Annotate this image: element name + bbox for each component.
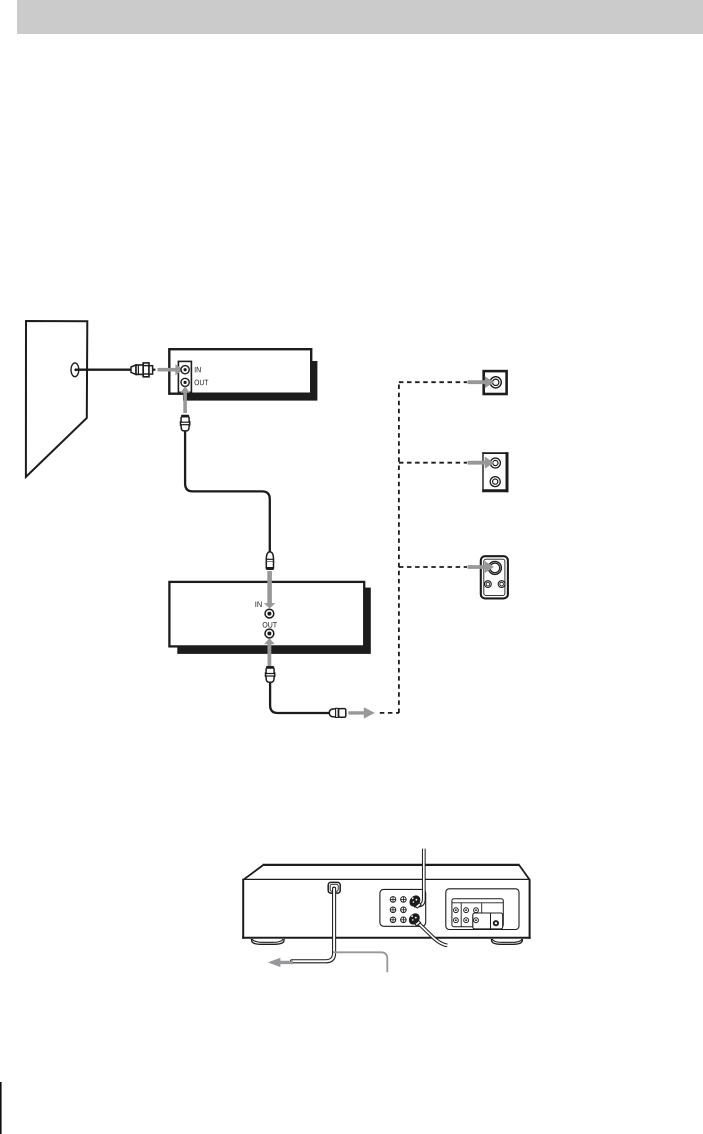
VCR IN jack bbox=[265, 609, 274, 618]
label OUT (converter) bbox=[195, 380, 209, 386]
wall (angled panel) bbox=[26, 321, 87, 477]
dashed branch to plate B bbox=[399, 462, 467, 464]
arrow out left from aerial cable bbox=[268, 958, 293, 967]
VCR rear: right slant bbox=[519, 865, 530, 880]
VCR right connector panel bbox=[446, 889, 519, 930]
RF cable lower out of VCR (double line) bbox=[416, 921, 448, 946]
VCR OUT jack bbox=[265, 629, 274, 638]
VCR box shadow bbox=[177, 588, 370, 654]
arrow up into converter OUT bbox=[180, 386, 189, 413]
RF cable down into VCR (double line) bbox=[414, 849, 424, 906]
arrow into IN of converter bbox=[158, 364, 184, 375]
dashed branch to plate A bbox=[399, 381, 467, 383]
converter box bbox=[169, 349, 311, 394]
page edge tab marker bbox=[0, 1082, 2, 1134]
converter box shadow bbox=[183, 361, 317, 401]
gray cable behind bbox=[333, 952, 387, 972]
wire converter OUT to VCR IN bbox=[185, 431, 270, 553]
dashed line bottom horizontal bbox=[380, 712, 399, 714]
wire VCR OUT to TV bbox=[270, 682, 329, 713]
wall plate B (two jacks) bbox=[482, 452, 508, 492]
arrow down into VCR IN bbox=[264, 571, 276, 608]
plug below converter (pointing up) bbox=[181, 415, 190, 431]
jacks on inner panel bbox=[454, 908, 479, 923]
VCR rear: top back edge bbox=[263, 864, 520, 866]
wall plate A (single coax) bbox=[484, 371, 507, 394]
arrow up into VCR OUT bbox=[264, 638, 275, 666]
antenna wall outlet bbox=[71, 363, 79, 377]
RF modulator tab bbox=[473, 913, 503, 929]
wire outlet to F-connector bbox=[76, 369, 132, 371]
RF plug lower bbox=[413, 919, 421, 926]
converter IN jack bbox=[181, 366, 189, 374]
wall plate C (coax + two jacks) bbox=[481, 556, 508, 598]
VCR box bbox=[169, 582, 364, 647]
screws on left panel bbox=[390, 897, 406, 923]
F-connector on aerial cable bbox=[131, 363, 155, 377]
VCR foot left bbox=[251, 939, 284, 944]
inner jack panel bbox=[452, 899, 503, 927]
VCR aerial jack bbox=[328, 882, 340, 893]
plug below VCR (pointing up) bbox=[266, 666, 275, 682]
header gray bar bbox=[17, 0, 703, 34]
arrow into plate C bbox=[468, 561, 494, 573]
dashed branch to plate C bbox=[399, 566, 467, 568]
label IN (converter) bbox=[195, 367, 201, 373]
VCR rear: left slant bbox=[243, 865, 263, 880]
plug to TV (pointing right) bbox=[329, 708, 346, 717]
arrow from plug to dashed line bbox=[348, 707, 374, 718]
dashed line vertical bbox=[398, 382, 400, 713]
VCR foot right bbox=[491, 939, 522, 944]
screw jack on tab bbox=[493, 920, 499, 926]
plug above VCR box (pointing down) bbox=[266, 552, 274, 570]
converter OUT jack bbox=[181, 378, 189, 386]
aerial cable out of VCR (double line) bbox=[292, 889, 334, 962]
VCR left connector panel bbox=[380, 889, 426, 926]
RF plug upper bbox=[414, 901, 422, 908]
arrow into plate A bbox=[468, 376, 494, 388]
label OUT (VCR) bbox=[263, 622, 277, 628]
label IN (VCR) bbox=[255, 602, 261, 608]
converter jack panel bbox=[178, 361, 191, 392]
VCR rear: body bbox=[243, 879, 529, 937]
jack on tab bbox=[474, 918, 479, 923]
arrow into plate B bbox=[468, 457, 494, 469]
